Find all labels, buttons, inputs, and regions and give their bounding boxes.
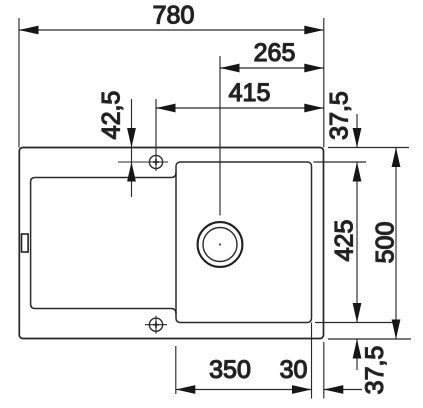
overflow slot on left rim bbox=[22, 234, 29, 252]
svg-text:265: 265 bbox=[254, 39, 296, 67]
sink outer outline bbox=[19, 148, 323, 339]
bottom extension line at bowl left edge bbox=[175, 346, 177, 394]
top mounting hole bbox=[118, 153, 168, 171]
svg-text:415: 415 bbox=[229, 79, 271, 107]
dimension 500 (overall depth) bbox=[395, 148, 397, 340]
right side extension line at bowl bottom edge bbox=[315, 322, 397, 324]
dimension 780 (top overall width) bbox=[19, 18, 324, 148]
dimension 265 (drain center to right edge) bbox=[220, 56, 324, 216]
bottom extension line at sink right edge bbox=[323, 342, 325, 399]
right side extension line at sink top edge bbox=[328, 147, 409, 149]
dimension 42,5 (top edge to hole center) bbox=[131, 99, 133, 197]
bottom mounting hole bbox=[145, 316, 167, 334]
drain inner circle bbox=[203, 228, 237, 262]
dimension 37,5 bottom right (rim below bowl) bbox=[356, 339, 358, 370]
dimension 30 (right rim width) bbox=[324, 389, 362, 391]
svg-text:780: 780 bbox=[153, 2, 195, 30]
drainboard outline bbox=[31, 173, 176, 314]
dimension 415 (hole center to right edge) bbox=[156, 99, 324, 153]
right side extension line at bowl top edge bbox=[314, 161, 367, 163]
main bowl outline bbox=[176, 162, 312, 323]
drain center dot bbox=[219, 243, 221, 245]
svg-text:500: 500 bbox=[372, 222, 400, 264]
bottom extension line at bowl right edge bbox=[311, 323, 313, 399]
svg-text:425: 425 bbox=[331, 220, 359, 262]
dimension 425 (bowl height) bbox=[356, 162, 358, 323]
svg-text:37,5: 37,5 bbox=[326, 91, 354, 140]
svg-text:42,5: 42,5 bbox=[98, 91, 126, 140]
svg-text:350: 350 bbox=[209, 356, 251, 384]
drain outer circle bbox=[198, 222, 243, 267]
svg-text:37,5: 37,5 bbox=[361, 346, 389, 395]
svg-text:30: 30 bbox=[280, 356, 308, 384]
right side extension line at sink bottom edge bbox=[328, 338, 411, 340]
dimension 350 (bowl width) bbox=[176, 389, 312, 391]
dimension 37,5 top right (rim above bowl) bbox=[356, 114, 358, 148]
